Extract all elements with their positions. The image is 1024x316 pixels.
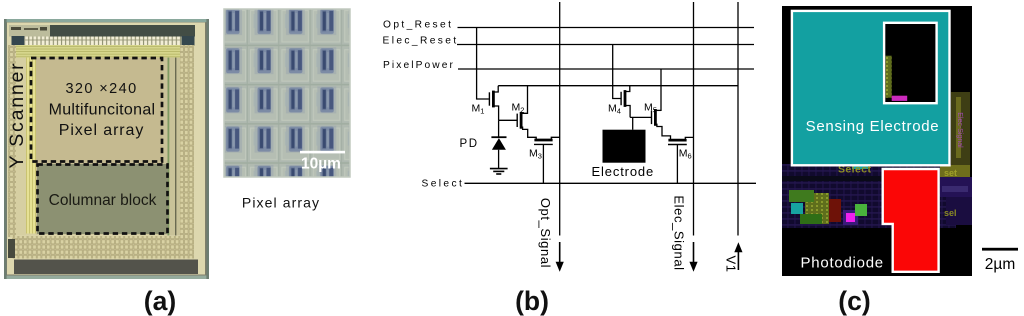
svg-text:Y Scanner: Y Scanner: [6, 62, 28, 169]
svg-text:Pixel array: Pixel array: [242, 195, 320, 211]
transistor M4: [621, 86, 630, 118]
svg-text:set: set: [944, 168, 957, 178]
right pad column: [180, 45, 194, 236]
inner black cutout box: [884, 23, 937, 103]
test pattern block top-left: [9, 25, 50, 37]
svg-text:(a): (a): [144, 286, 176, 316]
svg-text:V1: V1: [723, 256, 738, 273]
svg-text:Multifuncitonal: Multifuncitonal: [49, 102, 156, 119]
layout dark red block: [829, 199, 841, 222]
svg-text:Columnar block: Columnar block: [49, 192, 157, 209]
olive strip at cutout edge: [886, 56, 892, 98]
core pixel array area: [36, 58, 163, 235]
svg-text:sel: sel: [944, 208, 957, 218]
dark top band: [9, 25, 195, 37]
Y scanner yellow band: [26, 58, 36, 234]
wire Elec_Reset to M4 gate: [613, 45, 621, 99]
photodiode PD: [491, 120, 506, 168]
svg-text:Elec-Signal: Elec-Signal: [956, 112, 963, 148]
right inner strips: [163, 58, 180, 236]
svg-text:2µm: 2µm: [985, 256, 1015, 273]
transistor M1: [489, 86, 498, 121]
chip bottom edge strip: [4, 276, 209, 280]
chip outer body: [4, 19, 209, 279]
left pad column: [8, 45, 16, 237]
arrow V1 input: [734, 242, 742, 270]
layout green strip lower: [800, 214, 822, 224]
layout green cluster left: [789, 190, 814, 202]
arrow Elec_Signal output: [689, 242, 697, 272]
layout band dark rows: [782, 176, 956, 181]
svg-text:(b): (b): [515, 286, 549, 316]
photodiode red shape: [883, 169, 939, 272]
svg-text:Elec_Signal: Elec_Signal: [671, 195, 686, 270]
dashed box: columnar block: [38, 165, 168, 234]
layout right strip below: [940, 165, 970, 177]
svg-text:M1: M1: [472, 103, 485, 116]
scale bar 2um line: [982, 248, 1018, 251]
layout cyan square: [791, 203, 803, 214]
bottom pad rows: [12, 236, 194, 259]
layout olive block: [805, 193, 829, 224]
layout black background: [782, 6, 972, 276]
yellow routing bus band: [12, 45, 194, 58]
layout band base lattice: [782, 164, 956, 232]
electrode plate: [603, 130, 646, 163]
transistor M6: [668, 137, 694, 183]
wire Elec_Signal column: [693, 2, 695, 236]
layout teal bit above Select: [852, 164, 868, 169]
wire Opt_Reset to M1 gate: [477, 28, 489, 100]
layout bright green square: [855, 204, 867, 216]
wire electrode node drop: [632, 117, 634, 129]
chip right edge: [206, 19, 209, 279]
wire local drain rail: [498, 85, 738, 87]
wire PixelPower rail: [458, 68, 754, 70]
chip top teal edge strip: [4, 19, 209, 22]
svg-text:M4: M4: [608, 103, 621, 116]
sensing electrode teal box: [792, 11, 950, 165]
svg-text:320 ×240: 320 ×240: [65, 81, 137, 97]
layout right column olive structures: [951, 92, 970, 165]
dark bottom bar: [14, 260, 198, 275]
photo background: [224, 9, 350, 177]
svg-text:M5: M5: [644, 102, 657, 115]
svg-text:M3: M3: [529, 148, 542, 161]
svg-text:M2: M2: [512, 102, 525, 115]
dark corner block left of pad row: [12, 36, 25, 46]
wire PD node to M2 gate: [499, 119, 517, 121]
pixel array zone slightly darker: [36, 58, 162, 162]
svg-text:PD: PD: [460, 138, 479, 150]
transistor M2: [517, 86, 536, 140]
cream frame: [7, 23, 205, 275]
wire PixelPower to rail and M5 drain: [660, 69, 662, 111]
svg-text:(c): (c): [838, 286, 870, 316]
wire Select rail: [465, 182, 757, 184]
layout magenta square: [843, 210, 858, 225]
wire V1 column: [737, 2, 739, 236]
svg-text:Electrode: Electrode: [592, 164, 655, 179]
wire electrode node to M5 gate: [630, 116, 651, 118]
transistor M5: [652, 109, 671, 140]
wire Opt_Reset rail: [458, 27, 755, 29]
svg-text:Sensing Electrode: Sensing Electrode: [806, 118, 940, 135]
dashed box: pixel array: [31, 58, 162, 162]
ground: [490, 169, 508, 174]
inner field: [14, 58, 194, 236]
svg-text:M6: M6: [679, 148, 692, 161]
svg-text:PixelPower: PixelPower: [383, 60, 455, 71]
svg-text:Elec_Reset: Elec_Reset: [383, 35, 459, 46]
wire Elec_Reset rail: [457, 44, 754, 46]
arrow Opt_Signal output: [556, 242, 564, 272]
svg-text:10µm: 10µm: [301, 156, 341, 173]
dark corner block right of pad row: [182, 36, 195, 46]
chip left edge: [4, 19, 7, 279]
svg-text:Opt_Reset: Opt_Reset: [383, 19, 453, 30]
top pad row: [25, 37, 181, 46]
svg-text:Pixel array: Pixel array: [59, 122, 144, 139]
wire Opt_Signal column: [559, 2, 561, 236]
scale bar 10um line: [300, 151, 345, 154]
bottom-left dark mark: [8, 239, 15, 258]
svg-text:Opt_Signal: Opt_Signal: [538, 198, 553, 268]
magenta strip at cutout bottom: [892, 96, 908, 101]
columnar block area: [37, 164, 168, 234]
transistor M3: [534, 137, 560, 183]
photo soft edge: [224, 9, 350, 177]
svg-text:Select: Select: [422, 179, 465, 190]
svg-text:Photodiode: Photodiode: [801, 255, 884, 272]
